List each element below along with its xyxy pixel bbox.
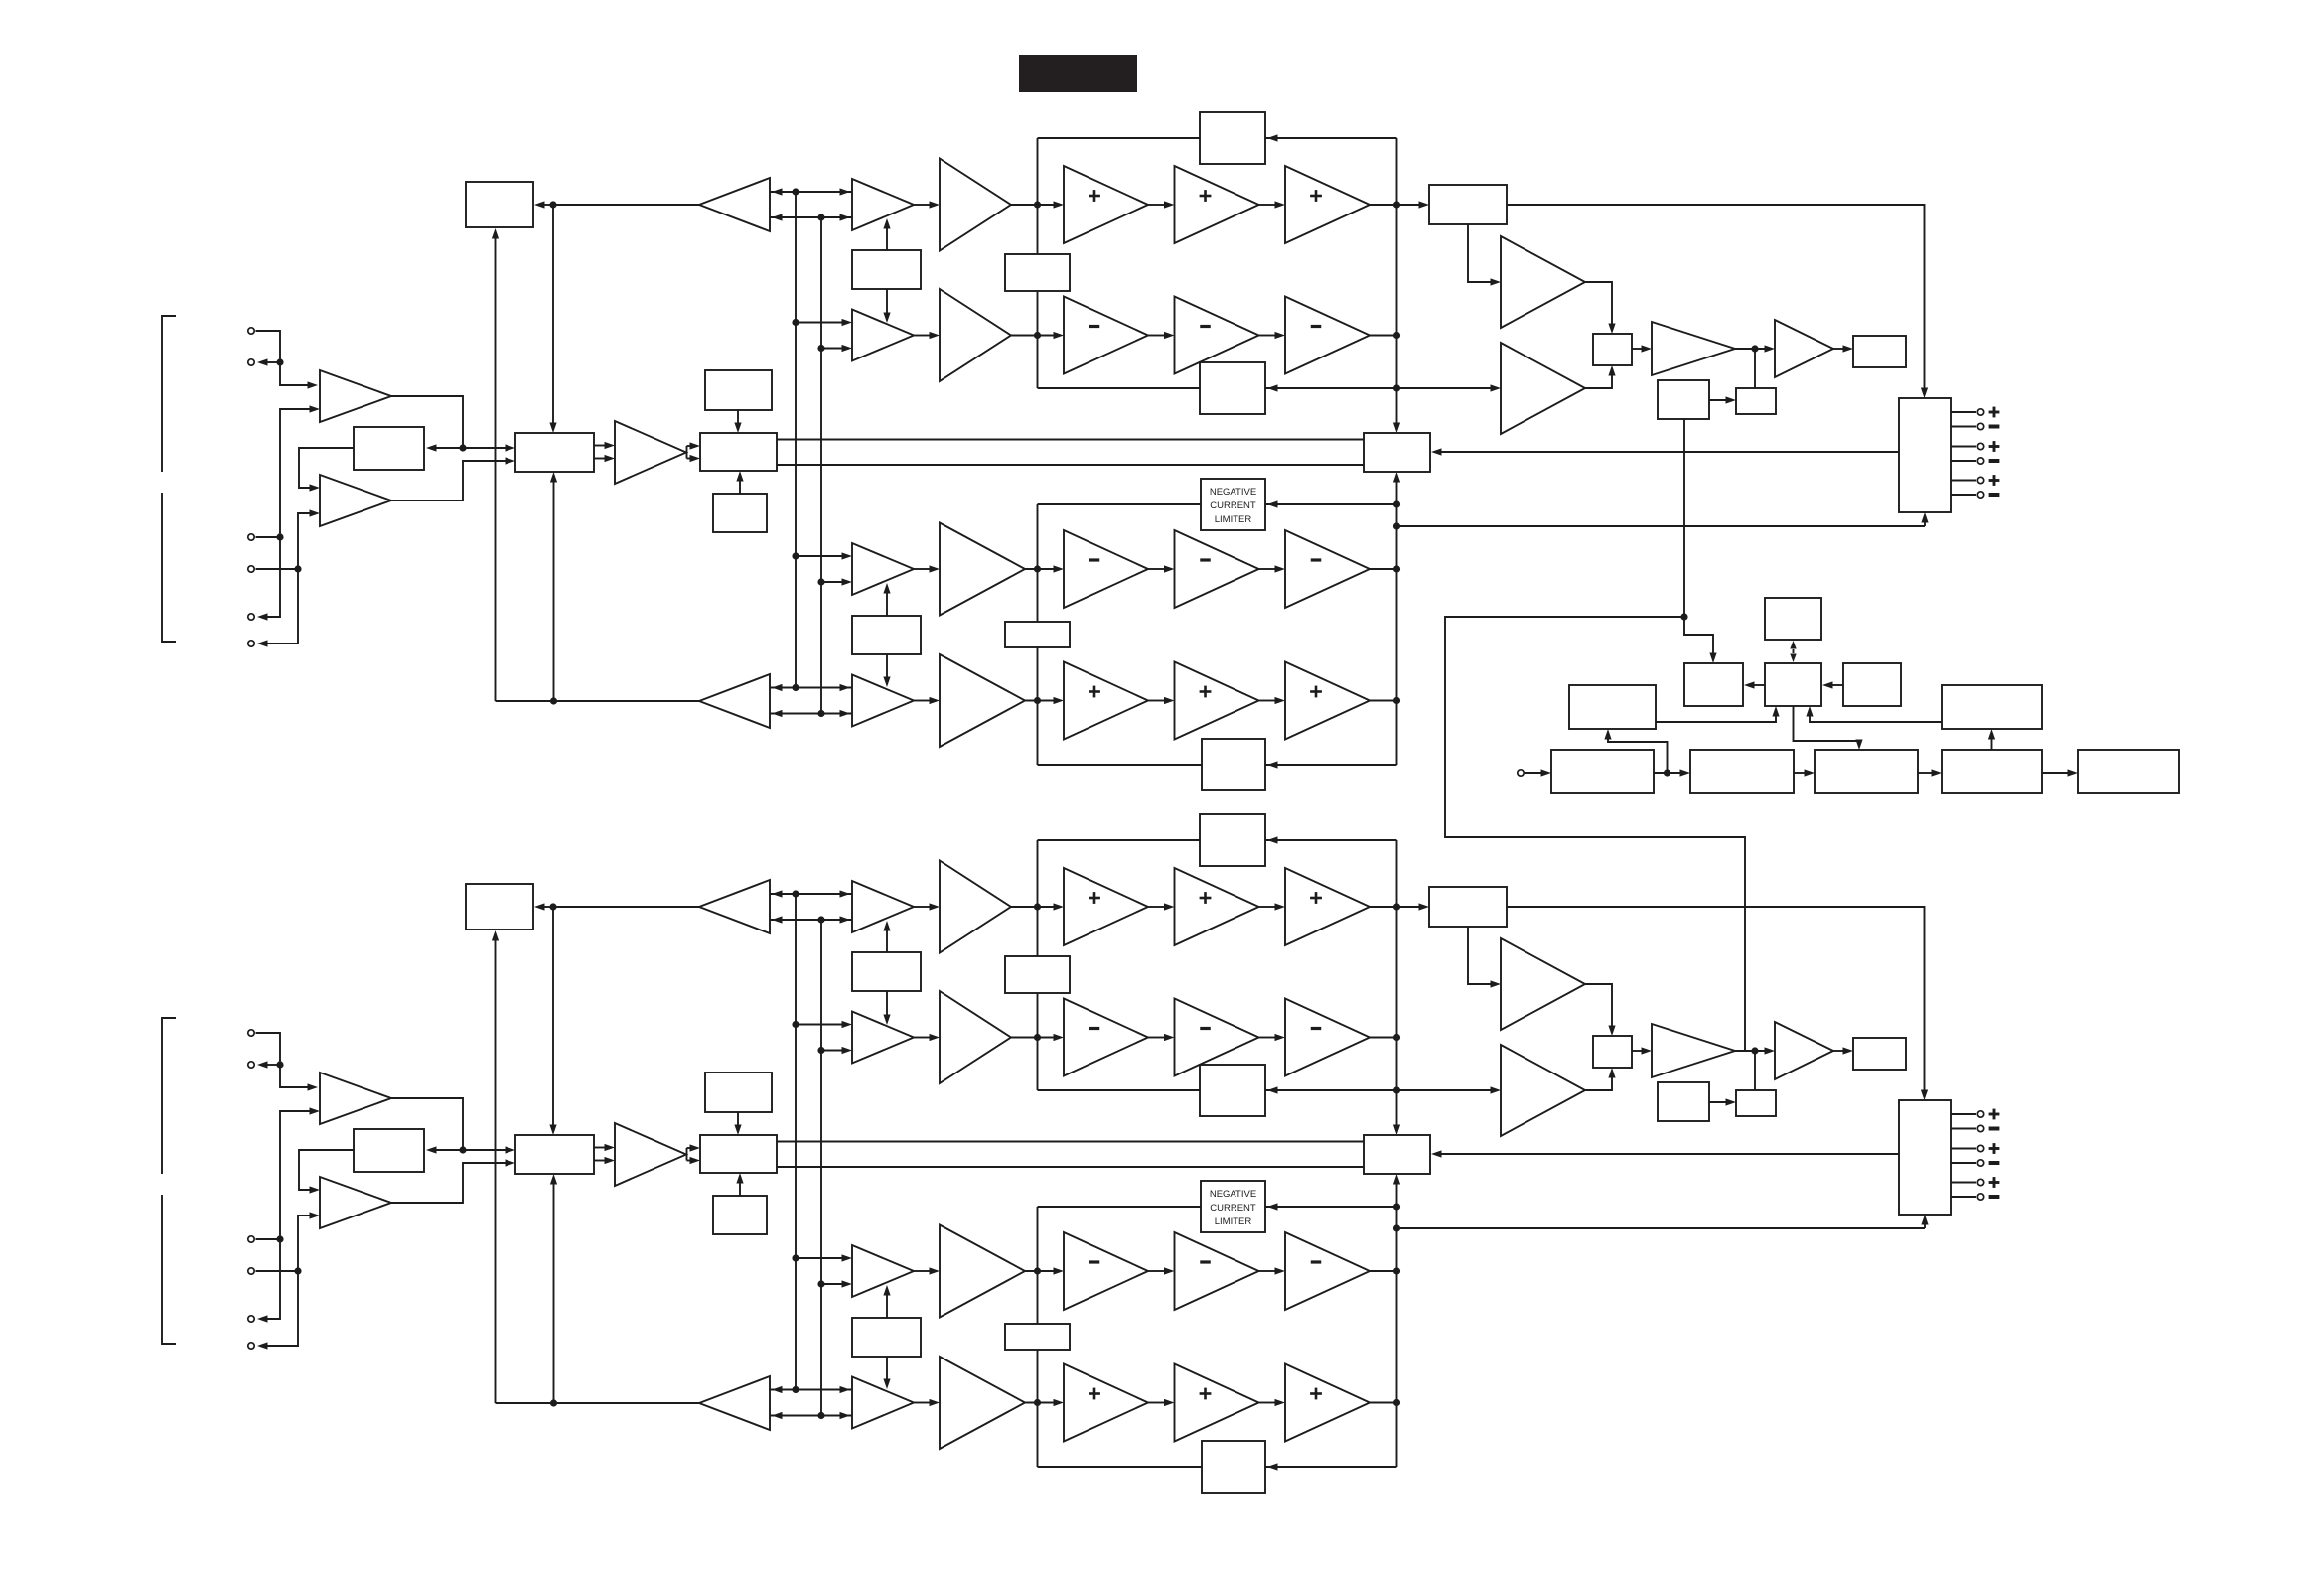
- power block 4: [1942, 750, 2042, 793]
- relay control box A: [1684, 663, 1743, 706]
- feedback box upper-bottom (L-ch): [1200, 362, 1265, 414]
- buffer amp B (L-ch): [320, 475, 391, 526]
- power transistor row2-3 (R-ch): [1285, 999, 1370, 1076]
- wire lower feedback to relay drive box (L-ch): [492, 228, 499, 701]
- wire node to summing box (R-ch): [463, 1146, 515, 1153]
- vi limiter box (L-ch): [1429, 185, 1507, 224]
- node row4 output (R-ch): [1393, 1399, 1400, 1406]
- wire driver to pre-driver row1 (R-ch): [914, 903, 940, 910]
- node rail tap row2 (L-ch): [1034, 332, 1041, 339]
- node power tap: [1664, 769, 1670, 776]
- polarity label row3-1 (R-ch): [1089, 1260, 1100, 1263]
- driver amp row4 (R-ch): [852, 1377, 914, 1429]
- wire power 3 to 4: [1918, 769, 1942, 776]
- wire top bidirectional pair (L-ch): [770, 188, 852, 220]
- wire row1 to vi limiter box (R-ch): [1397, 903, 1430, 910]
- meter amp (R-ch): [1652, 1024, 1735, 1077]
- wire stage link row3-1 (L-ch): [1148, 565, 1175, 572]
- pre-driver amp row4 (R-ch): [940, 1357, 1025, 1449]
- svg-text:LIMITER: LIMITER: [1215, 514, 1252, 525]
- input terminal bracket (L-ch): [162, 316, 176, 642]
- wire trigger to relay control: [1684, 617, 1717, 663]
- driver bias box upper (R-ch): [852, 921, 921, 1025]
- speaker terminal 3 (R-ch): [1977, 1145, 1983, 1151]
- feedback box upper-bottom (R-ch): [1200, 1065, 1265, 1116]
- power transistor row3-1 (L-ch): [1064, 530, 1148, 608]
- feedback box upper-top (L-ch): [1200, 112, 1265, 164]
- wire driver to pre-driver row3 (R-ch): [914, 1267, 940, 1274]
- wire protection to rectifier (L-ch): [1709, 396, 1736, 403]
- power supply box right: [1942, 685, 2042, 729]
- wire amp A output (R-ch): [391, 1098, 463, 1150]
- wire stage link row4-1 (L-ch): [1148, 697, 1175, 704]
- polarity label row1-2 (R-ch): [1200, 892, 1212, 904]
- polarity label row2-2 (R-ch): [1200, 1027, 1211, 1030]
- power transistor row4-1 (L-ch): [1064, 662, 1148, 740]
- speaker polarity plus 3 (L-ch): [1989, 441, 2000, 452]
- wire row1 to vi limiter box (L-ch): [1397, 201, 1430, 208]
- wire stage link row4-1 (R-ch): [1148, 1399, 1175, 1406]
- drive bus line 1 (R-ch): [795, 894, 797, 1390]
- wire node to summing box (L-ch): [463, 444, 515, 451]
- wire stage link row1-1 (R-ch): [1148, 903, 1175, 910]
- node row2 output (R-ch): [1393, 1034, 1400, 1041]
- wire muting box to buffer amp B (L-ch): [299, 448, 354, 492]
- power transistor row1-2 (L-ch): [1175, 166, 1259, 243]
- polarity label row3-1 (L-ch): [1089, 558, 1100, 561]
- wire box B to box A: [1744, 681, 1765, 688]
- wire bus to row2 driver (L-ch): [796, 319, 852, 352]
- power transistor row3-3 (R-ch): [1285, 1232, 1370, 1310]
- relay drive box (R-ch): [466, 884, 533, 929]
- wire stage link row2-2 (R-ch): [1259, 1034, 1286, 1041]
- ac input terminal: [1518, 770, 1524, 776]
- wire terminal4 bus (L-ch): [256, 509, 321, 646]
- node rail tap row3 (L-ch): [1034, 565, 1041, 572]
- pre-driver amp row1 (L-ch): [940, 159, 1011, 251]
- node input junction A (L-ch): [276, 358, 283, 365]
- wire to terminal 2 (L-ch): [257, 358, 280, 365]
- wire stage link row2-1 (L-ch): [1148, 332, 1175, 339]
- node bus taps row1 (L-ch): [792, 188, 824, 220]
- wire vi limiter to upper output amp (L-ch): [1468, 224, 1501, 286]
- speaker polarity plus 3 (R-ch): [1989, 1143, 2000, 1154]
- bias reference box upper (L-ch): [705, 370, 772, 410]
- wire lower output amp to driver box (R-ch): [1585, 1068, 1616, 1090]
- wire speaker terminal 6 (R-ch): [1951, 1196, 1976, 1198]
- meter rectifier box (R-ch): [1736, 1090, 1776, 1116]
- power block 5: [2078, 750, 2179, 793]
- wire stage link row4-2 (L-ch): [1259, 697, 1286, 704]
- polarity label row2-3 (L-ch): [1311, 325, 1322, 328]
- wire upper frame right (R-ch): [1396, 840, 1398, 1090]
- wire meter buffer to meter box (R-ch): [1833, 1047, 1853, 1054]
- wire power 1 to 2: [1654, 769, 1690, 776]
- power supply box left: [1569, 685, 1656, 729]
- driver bias box lower (L-ch): [852, 583, 921, 687]
- wire supply left to box B: [1656, 706, 1780, 722]
- title block (redacted): [1019, 55, 1137, 92]
- speaker polarity minus 6 (R-ch): [1989, 1195, 2000, 1199]
- wire pre-driver to power stage row3 (R-ch): [1025, 1267, 1064, 1274]
- wire to terminal 2 (R-ch): [257, 1061, 280, 1068]
- power transistor row4-1 (R-ch): [1064, 1364, 1148, 1442]
- wire stage link row2-1 (R-ch): [1148, 1034, 1175, 1041]
- node relay-drive tap (L-ch): [549, 201, 556, 208]
- node meter tap (L-ch): [1751, 345, 1758, 352]
- bias reference box lower (L-ch): [713, 494, 767, 532]
- meter box (R-ch): [1853, 1038, 1906, 1070]
- polarity label row3-3 (R-ch): [1311, 1260, 1322, 1263]
- wire lower output to protector box (L-ch): [1393, 472, 1400, 504]
- wire pre-driver to power stage row3 (L-ch): [1025, 565, 1064, 572]
- driver amp row1 (L-ch): [852, 179, 914, 230]
- timer box top: [1765, 598, 1821, 640]
- wire pre-driver to power stage row1 (R-ch): [1011, 903, 1064, 910]
- polarity label row2-1 (L-ch): [1089, 325, 1100, 328]
- speaker terminal 1 (L-ch): [1977, 409, 1983, 415]
- drive bus line 2 (L-ch): [820, 217, 822, 714]
- wire stage link row1-1 (L-ch): [1148, 201, 1175, 208]
- wire protector status line (L-ch): [1431, 448, 1899, 455]
- polarity label row2-2 (L-ch): [1200, 325, 1211, 328]
- input terminal 3 (R-ch): [248, 1236, 254, 1242]
- wire driver to pre-driver row1 (L-ch): [914, 201, 940, 208]
- wire driver to pre-driver row2 (L-ch): [914, 332, 940, 339]
- speaker terminal 4 (R-ch): [1977, 1160, 1983, 1166]
- wire speaker terminal 4 (L-ch): [1951, 460, 1976, 462]
- drive bus line 1 (L-ch): [795, 192, 797, 688]
- driver amp row4 (L-ch): [852, 675, 914, 727]
- wire lower output to protector box (R-ch): [1393, 1174, 1400, 1207]
- wire stage link row3-2 (L-ch): [1259, 565, 1286, 572]
- summing box (R-ch): [515, 1135, 594, 1174]
- wire lower frame top (L-ch): [1038, 500, 1397, 507]
- wire driver to pre-driver row4 (R-ch): [914, 1399, 940, 1406]
- wire driver to pre-driver row2 (R-ch): [914, 1034, 940, 1041]
- speaker terminal 5 (R-ch): [1977, 1179, 1983, 1185]
- bias reference box lower (R-ch): [713, 1196, 767, 1234]
- protector box (L-ch): [1364, 433, 1430, 472]
- polarity label row3-2 (L-ch): [1200, 558, 1211, 561]
- power transistor row4-2 (R-ch): [1175, 1364, 1259, 1442]
- node lower feedback tap (R-ch): [550, 1399, 557, 1406]
- bias sense box lower (R-ch): [1005, 1324, 1070, 1350]
- error amp (L-ch): [615, 421, 686, 484]
- node bus taps row1 (R-ch): [792, 890, 824, 923]
- polarity label row1-1 (R-ch): [1089, 892, 1100, 904]
- input terminal 3 (L-ch): [248, 534, 254, 540]
- polarity label row3-3 (L-ch): [1311, 558, 1322, 561]
- driver bias box lower (R-ch): [852, 1285, 921, 1389]
- wire box C to box B: [1822, 681, 1843, 688]
- power block 3: [1815, 750, 1918, 793]
- node bus taps row2 (R-ch): [792, 1021, 824, 1054]
- polarity label row1-3 (L-ch): [1310, 190, 1322, 202]
- output amp upper (L-ch): [1501, 236, 1585, 328]
- speaker terminal 5 (L-ch): [1977, 477, 1983, 483]
- wire stage link row1-2 (L-ch): [1259, 201, 1286, 208]
- wire row1 output (L-ch): [1370, 204, 1397, 206]
- power transistor row4-3 (R-ch): [1285, 1364, 1370, 1442]
- wire lower frame bottom (L-ch): [1038, 761, 1397, 768]
- wire upper frame left rail (L-ch): [1037, 138, 1039, 388]
- pre-driver amp row2 (L-ch): [940, 289, 1011, 381]
- speaker terminal 2 (R-ch): [1977, 1125, 1983, 1131]
- wire pre-driver to power stage row2 (L-ch): [1011, 332, 1064, 339]
- wire lower output amp to driver box (L-ch): [1585, 365, 1616, 388]
- output loop terminal 5 (L-ch): [248, 614, 254, 620]
- node protection trigger: [1680, 613, 1687, 620]
- wire speaker line sense (L-ch): [1397, 512, 1929, 526]
- node bus taps row4 (R-ch): [792, 1386, 824, 1419]
- wire speaker terminal 5 (L-ch): [1951, 480, 1976, 482]
- polarity label row1-3 (R-ch): [1310, 892, 1322, 904]
- wire driver box to meter amp (L-ch): [1632, 345, 1652, 352]
- bias sense box upper (R-ch): [1005, 956, 1070, 993]
- wire node to muting box (R-ch): [426, 1146, 463, 1153]
- speaker polarity plus 1 (L-ch): [1989, 407, 2000, 418]
- wire pre-driver to power stage row4 (L-ch): [1025, 697, 1064, 704]
- wire power 4 to supply right: [1988, 729, 1995, 750]
- wire bias box to protector lower (L-ch): [777, 464, 1364, 466]
- node speaker sense tap (R-ch): [1393, 1224, 1400, 1231]
- wire relay-drive node down to summing box (R-ch): [549, 907, 556, 1135]
- power transistor row4-2 (L-ch): [1175, 662, 1259, 740]
- wire lower frame left rail (R-ch): [1037, 1207, 1039, 1467]
- wire box B to rectifier 3: [1794, 706, 1863, 750]
- wire stage link row2-2 (L-ch): [1259, 332, 1286, 339]
- power block 2: [1690, 750, 1794, 793]
- wire upper frame bottom (L-ch): [1038, 384, 1397, 391]
- power transistor row2-3 (L-ch): [1285, 297, 1370, 374]
- wire upper frame bottom (R-ch): [1038, 1086, 1397, 1093]
- meter buffer amp (L-ch): [1775, 320, 1833, 377]
- power transistor row2-1 (L-ch): [1064, 297, 1148, 374]
- speaker polarity plus 5 (L-ch): [1989, 475, 2000, 486]
- meter box (L-ch): [1853, 336, 1906, 367]
- input terminal 4 (L-ch): [248, 566, 254, 572]
- wire bias box to protector upper (R-ch): [777, 1141, 1364, 1143]
- speaker terminal 4 (L-ch): [1977, 458, 1983, 464]
- speaker terminal 2 (L-ch): [1977, 423, 1983, 429]
- power transistor row2-2 (R-ch): [1175, 999, 1259, 1076]
- wire frame to protector box (L-ch): [1393, 388, 1400, 433]
- speaker terminal 3 (L-ch): [1977, 443, 1983, 449]
- wire driver to pre-driver row3 (L-ch): [914, 565, 940, 572]
- wire upper feedback line (R-ch): [534, 903, 699, 910]
- wire meter amp link (R-ch): [1735, 1047, 1775, 1054]
- wire node to muting box (L-ch): [426, 444, 463, 451]
- wire supply right to box B: [1806, 706, 1942, 722]
- node limiter tap (L-ch): [1393, 500, 1400, 507]
- wire row2 output (R-ch): [1370, 1037, 1397, 1039]
- input terminal 4 (R-ch): [248, 1268, 254, 1274]
- feedback box lower-bottom (R-ch): [1202, 1441, 1265, 1493]
- wire top bidirectional pair (R-ch): [770, 890, 852, 923]
- node bus taps row3 (R-ch): [792, 1254, 824, 1287]
- wire amp B output (L-ch): [391, 457, 515, 500]
- wire meter tap down (L-ch): [1754, 349, 1756, 388]
- wire upper frame top (R-ch): [1038, 836, 1397, 843]
- node row1 output (R-ch): [1393, 903, 1400, 910]
- wire muting box to buffer amp B (R-ch): [299, 1150, 354, 1194]
- polarity label row1-2 (L-ch): [1200, 190, 1212, 202]
- speaker polarity minus 2 (R-ch): [1989, 1127, 2000, 1131]
- speaker terminal 1 (R-ch): [1977, 1111, 1983, 1117]
- node amp A output (R-ch): [459, 1146, 466, 1153]
- feedback box upper-top (R-ch): [1200, 814, 1265, 866]
- protection control box (R-ch): [1658, 1082, 1709, 1121]
- wire bottom bidirectional pair (L-ch): [770, 684, 852, 717]
- wire vi limiter to output relay (R-ch): [1507, 907, 1928, 1100]
- node amp A output (L-ch): [459, 444, 466, 451]
- wire relay-drive node down to summing box (L-ch): [549, 205, 556, 433]
- wire row3 output (R-ch): [1370, 1270, 1397, 1272]
- wire speaker terminal 2 (R-ch): [1951, 1128, 1976, 1130]
- power transistor row4-3 (L-ch): [1285, 662, 1370, 740]
- input terminal 2 (R-ch): [248, 1062, 254, 1068]
- power transistor row3-2 (L-ch): [1175, 530, 1259, 608]
- output driver box (L-ch): [1593, 334, 1632, 365]
- wire lower frame right (R-ch): [1396, 1207, 1398, 1467]
- node bus taps row3 (L-ch): [792, 552, 824, 585]
- driver bias box upper (L-ch): [852, 218, 921, 323]
- wire speaker terminal 1 (R-ch): [1951, 1113, 1976, 1115]
- wire summing box to error amp lower (L-ch): [594, 455, 615, 462]
- wire lower frame bottom (R-ch): [1038, 1463, 1397, 1470]
- power transistor row1-3 (L-ch): [1285, 166, 1370, 243]
- power transistor row3-3 (L-ch): [1285, 530, 1370, 608]
- wire bias box to protector lower (R-ch): [777, 1166, 1364, 1168]
- wire frame to lower output amp (L-ch): [1397, 384, 1502, 391]
- wire stage link row1-2 (R-ch): [1259, 903, 1286, 910]
- speaker polarity minus 2 (L-ch): [1989, 425, 2000, 429]
- wire protector status line (R-ch): [1431, 1150, 1899, 1157]
- wire meter buffer to meter box (L-ch): [1833, 345, 1853, 352]
- wire meter amp link (L-ch): [1735, 345, 1775, 352]
- wire bias ref to bias box (L-ch): [734, 410, 741, 433]
- output driver box (R-ch): [1593, 1036, 1632, 1068]
- svg-text:CURRENT: CURRENT: [1210, 1203, 1256, 1214]
- detector box C: [1843, 663, 1901, 706]
- bias control box (L-ch): [700, 433, 777, 471]
- wire frame to protector box (R-ch): [1393, 1090, 1400, 1135]
- output relay box (L-ch): [1899, 398, 1951, 512]
- wire row4 output (R-ch): [1370, 1402, 1397, 1404]
- wire bus to row3 driver (R-ch): [796, 1254, 852, 1287]
- polarity label row2-3 (R-ch): [1311, 1027, 1322, 1030]
- output loop terminal 6 (R-ch): [248, 1343, 254, 1349]
- node upper frame corner (L-ch): [1393, 384, 1400, 391]
- wire power 2 to 3: [1794, 769, 1815, 776]
- bias sense box upper (L-ch): [1005, 254, 1070, 291]
- wire upper output amp to driver box (L-ch): [1585, 282, 1616, 334]
- wire trigger to R-channel: [1445, 617, 1745, 1051]
- speaker polarity minus 4 (L-ch): [1989, 459, 2000, 463]
- feedback buffer top (L-ch): [699, 178, 770, 231]
- power block 1: [1551, 750, 1654, 793]
- node rail tap row2 (R-ch): [1034, 1034, 1041, 1041]
- power transistor row1-1 (R-ch): [1064, 868, 1148, 945]
- power transistor row1-3 (R-ch): [1285, 868, 1370, 945]
- summing box (L-ch): [515, 433, 594, 472]
- error amp (R-ch): [615, 1123, 686, 1186]
- wire speaker terminal 5 (R-ch): [1951, 1182, 1976, 1184]
- feedback box lower-bottom (L-ch): [1202, 739, 1265, 790]
- node bus taps row4 (L-ch): [792, 684, 824, 717]
- relay control box B: [1765, 663, 1821, 706]
- wire bottom bidirectional pair (R-ch): [770, 1386, 852, 1419]
- node row2 output (L-ch): [1393, 332, 1400, 339]
- wire error amp to bias box (R-ch): [687, 1144, 701, 1164]
- node terminal3 junction (L-ch): [276, 533, 283, 540]
- wire protection to rectifier (R-ch): [1709, 1098, 1736, 1105]
- wire row1 output (R-ch): [1370, 906, 1397, 908]
- wire driver box to meter amp (R-ch): [1632, 1047, 1652, 1054]
- wire stage link row3-2 (R-ch): [1259, 1267, 1286, 1274]
- node upper frame corner (R-ch): [1393, 1086, 1400, 1093]
- node rail tap row1 (L-ch): [1034, 201, 1041, 208]
- output amp lower (R-ch): [1501, 1045, 1585, 1136]
- polarity label row1-1 (L-ch): [1089, 190, 1100, 202]
- bias control box (R-ch): [700, 1135, 777, 1173]
- wire vi limiter to output relay (L-ch): [1507, 205, 1928, 398]
- wire vi limiter to upper output amp (R-ch): [1468, 927, 1501, 988]
- wire bus to row2 driver (R-ch): [796, 1021, 852, 1054]
- buffer amp A (L-ch): [320, 370, 391, 422]
- polarity label row4-1 (L-ch): [1089, 686, 1100, 698]
- wire ac input: [1525, 769, 1552, 776]
- output amp lower (L-ch): [1501, 343, 1585, 434]
- polarity label row4-2 (R-ch): [1200, 1388, 1212, 1400]
- wire pre-driver to power stage row4 (R-ch): [1025, 1399, 1064, 1406]
- power transistor row1-1 (L-ch): [1064, 166, 1148, 243]
- bias reference box upper (R-ch): [705, 1072, 772, 1112]
- power transistor row2-2 (L-ch): [1175, 297, 1259, 374]
- wire terminal3 bus (R-ch): [256, 1107, 321, 1322]
- node rail tap row1 (R-ch): [1034, 903, 1041, 910]
- node lower feedback tap (L-ch): [550, 697, 557, 704]
- wire lower ref to bias box (R-ch): [736, 1173, 743, 1196]
- wire lower ref to bias box (L-ch): [736, 471, 743, 494]
- wire summing box to error amp lower (R-ch): [594, 1157, 615, 1164]
- meter amp (L-ch): [1652, 322, 1735, 375]
- svg-text:LIMITER: LIMITER: [1215, 1216, 1252, 1227]
- power transistor row3-2 (R-ch): [1175, 1232, 1259, 1310]
- buffer amp A (R-ch): [320, 1072, 391, 1124]
- node row3 output (L-ch): [1393, 565, 1400, 572]
- driver amp row2 (R-ch): [852, 1012, 914, 1064]
- negative current limiter box (L-ch): [1201, 479, 1265, 530]
- output relay box (R-ch): [1899, 1100, 1951, 1215]
- wire upper frame right (L-ch): [1396, 138, 1398, 388]
- wire bias box to protector upper (L-ch): [777, 439, 1364, 441]
- node rail tap row4 (L-ch): [1034, 697, 1041, 704]
- wire speaker terminal 3 (R-ch): [1951, 1148, 1976, 1150]
- wire stage link row3-1 (R-ch): [1148, 1267, 1175, 1274]
- wire lower feedback to relay drive box (R-ch): [492, 930, 499, 1403]
- node meter tap (R-ch): [1751, 1047, 1758, 1054]
- wire speaker line sense (R-ch): [1397, 1215, 1929, 1228]
- node input junction A (R-ch): [276, 1061, 283, 1068]
- node speaker sense tap (L-ch): [1393, 522, 1400, 529]
- feedback buffer top (R-ch): [699, 880, 770, 933]
- wire lower feedback up to summing box (L-ch): [550, 472, 557, 701]
- speaker polarity plus 1 (R-ch): [1989, 1109, 2000, 1120]
- node terminal3 junction (R-ch): [276, 1235, 283, 1242]
- wire power 4 to 5: [2042, 769, 2078, 776]
